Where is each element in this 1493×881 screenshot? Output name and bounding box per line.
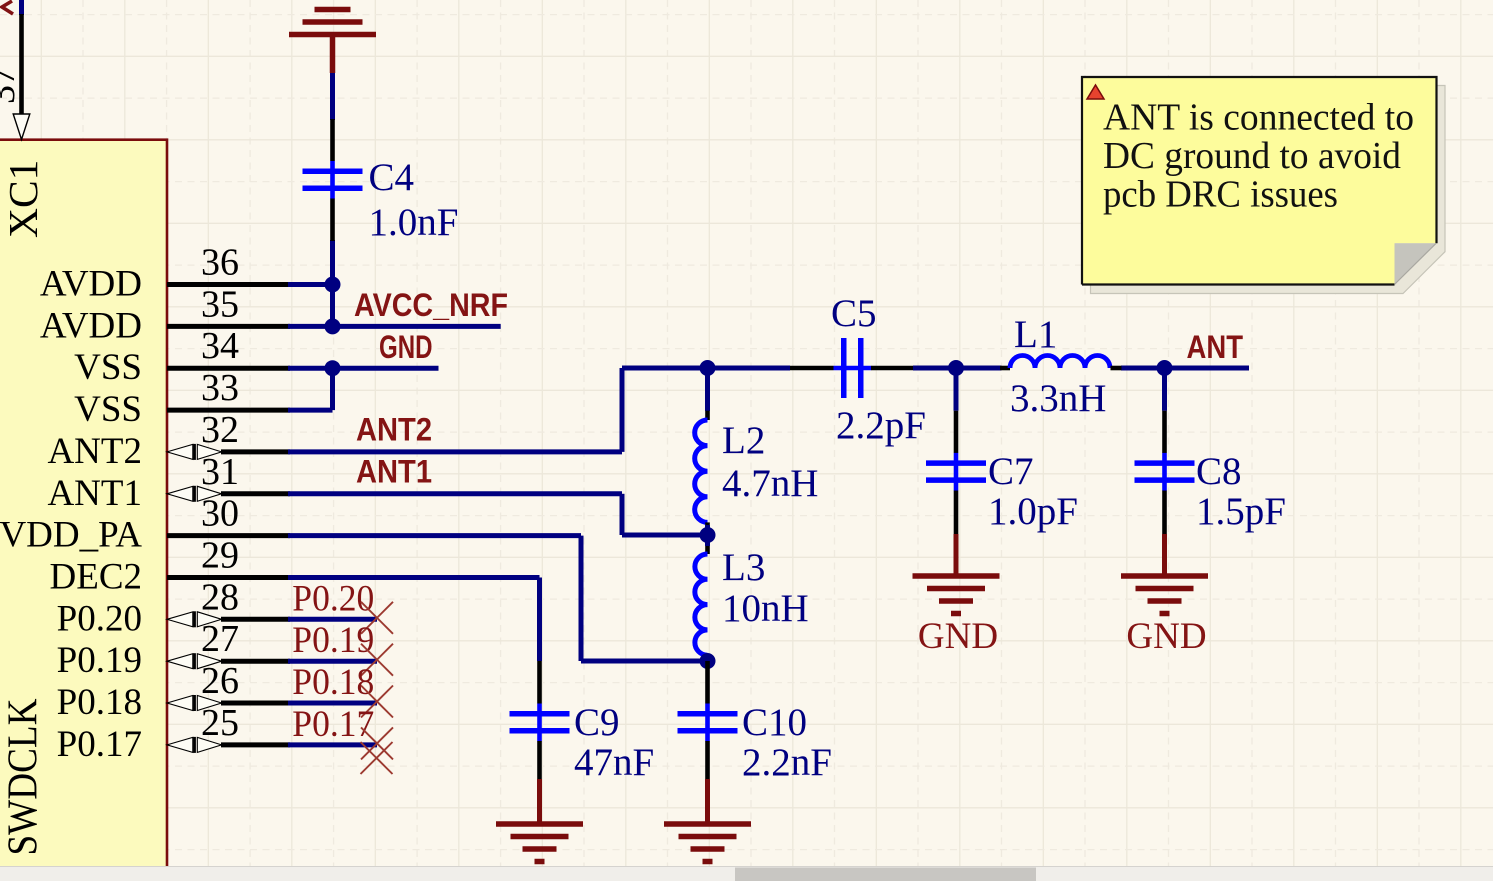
pin 28 P0.20: [57, 576, 290, 639]
designator XC1: [0, 160, 46, 238]
svg-text:2.2pF: 2.2pF: [836, 404, 926, 447]
scrollbar thumb: [735, 868, 1036, 881]
svg-text:GND: GND: [918, 616, 998, 657]
capacitor C10: [678, 661, 832, 784]
wire ANT2: [288, 368, 622, 452]
svg-text:ANT1: ANT1: [47, 473, 142, 514]
junction L3 bottom: [700, 653, 716, 669]
svg-text:C4: C4: [369, 156, 415, 199]
no-ERC cross P0.18: [361, 686, 393, 718]
inductor L1: [1000, 313, 1122, 420]
junction pin36: [325, 277, 341, 293]
pin 37 with input arrow: [0, 14, 30, 140]
partial net-label glyph top-left: [2, 1, 13, 14]
wire P0.20: [288, 617, 377, 622]
svg-text:29: 29: [201, 535, 239, 577]
wire AVCC_NRF pin35: [288, 324, 501, 329]
svg-text:27: 27: [201, 618, 239, 660]
no-ERC cross P0.17: [361, 727, 393, 759]
svg-text:AVDD: AVDD: [40, 264, 142, 305]
pin 32 ANT2: [47, 409, 290, 472]
svg-text:2.2nF: 2.2nF: [742, 741, 832, 784]
wire GND pin34: [288, 366, 439, 371]
net label P0.19: [292, 620, 374, 661]
no-ERC cross P0.19: [361, 644, 393, 676]
svg-text:25: 25: [201, 702, 239, 744]
svg-text:C7: C7: [988, 450, 1034, 493]
net label GND: [379, 329, 433, 365]
ground (flipped) above C4: [289, 0, 376, 73]
svg-text:P0.20: P0.20: [292, 578, 374, 619]
pin 29 DEC2: [50, 535, 291, 598]
net label P0.17: [292, 704, 374, 745]
svg-text:37: 37: [0, 66, 23, 104]
svg-text:ANT: ANT: [1187, 329, 1244, 365]
svg-text:L2: L2: [722, 419, 765, 462]
capacitor C4: [303, 73, 459, 244]
svg-text:30: 30: [201, 493, 239, 535]
net label ANT2: [356, 412, 432, 448]
pin 34 VSS: [74, 325, 290, 388]
svg-text:P0.17: P0.17: [292, 704, 374, 745]
junction C7: [948, 360, 964, 376]
svg-text:P0.18: P0.18: [57, 682, 142, 723]
svg-text:P0.17: P0.17: [57, 724, 142, 765]
pin 33 VSS: [74, 367, 290, 430]
capacitor C8: [1135, 368, 1286, 534]
svg-text:DEC2: DEC2: [50, 557, 143, 598]
svg-text:P0.19: P0.19: [292, 620, 374, 661]
scrollbar track: [0, 867, 1493, 881]
svg-text:VSS: VSS: [74, 347, 142, 388]
pin 27 P0.19: [57, 618, 290, 681]
svg-text:35: 35: [201, 283, 239, 325]
wire P0.18: [288, 701, 377, 706]
capacitor C7: [926, 368, 1078, 534]
svg-text:P0.18: P0.18: [292, 662, 374, 703]
ground below C9: [496, 779, 583, 862]
svg-text:XC1: XC1: [0, 160, 46, 238]
ground below C7: [913, 534, 1000, 614]
svg-text:1.0pF: 1.0pF: [988, 490, 1078, 533]
pin 26 P0.18: [57, 660, 290, 723]
inductor L3: [695, 535, 809, 661]
IC XC1 body: [0, 140, 167, 881]
pin 35 AVDD: [40, 283, 290, 346]
svg-text:ANT2: ANT2: [356, 412, 432, 448]
ground below C8: [1121, 534, 1208, 614]
net label P0.18: [292, 662, 374, 703]
wire DEC2 to C9: [288, 578, 540, 662]
wire VSS pin33: [288, 368, 333, 410]
wire ANT1: [288, 494, 708, 535]
svg-text:C8: C8: [1196, 450, 1242, 493]
wire VDD_PA: [288, 536, 708, 661]
svg-text:L3: L3: [722, 546, 765, 589]
svg-text:DC ground to avoid: DC ground to avoid: [1103, 135, 1401, 177]
svg-text:P0.20: P0.20: [57, 598, 142, 639]
junction pin35: [325, 318, 341, 334]
svg-text:C5: C5: [831, 292, 877, 335]
svg-text:31: 31: [201, 451, 239, 493]
pin 30 VDD_PA: [0, 493, 290, 556]
svg-text:pcb DRC issues: pcb DRC issues: [1103, 173, 1338, 215]
svg-text:GND: GND: [379, 329, 433, 365]
GND label below C8: [1126, 616, 1206, 657]
junction L2 top: [700, 360, 716, 376]
svg-text:34: 34: [201, 325, 239, 367]
svg-text:SWDCLK: SWDCLK: [1, 699, 47, 856]
svg-text:AVCC_NRF: AVCC_NRF: [354, 287, 508, 323]
svg-text:GND: GND: [1126, 616, 1206, 657]
note shadow: [1091, 86, 1446, 294]
pin 31 ANT1: [47, 451, 290, 514]
svg-text:36: 36: [201, 242, 239, 284]
power bus vertical (AVCC net): [330, 240, 335, 326]
junction L2/L3 mid: [700, 527, 716, 543]
svg-text:33: 33: [201, 367, 239, 409]
inductor L2: [695, 368, 819, 535]
pin 25 P0.17: [57, 702, 290, 765]
wire AVDD pin36 to bus: [288, 282, 333, 287]
junction C8/ANT: [1157, 360, 1173, 376]
svg-text:32: 32: [201, 409, 239, 451]
RF rail wire right: [1121, 366, 1249, 371]
svg-text:3.3nH: 3.3nH: [1010, 377, 1106, 420]
svg-text:ANT1: ANT1: [356, 453, 432, 489]
net label ANT: [1187, 329, 1244, 365]
svg-text:C10: C10: [742, 701, 807, 744]
wire P0.19: [288, 659, 377, 664]
GND label below C7: [918, 616, 998, 657]
ground below C10: [664, 779, 751, 862]
wire to pin 37: [19, 0, 24, 15]
svg-text:ANT is connected to: ANT is connected to: [1103, 96, 1414, 138]
svg-text:C9: C9: [574, 701, 620, 744]
wire P0.17: [288, 742, 377, 747]
svg-text:47nF: 47nF: [574, 741, 654, 784]
svg-text:VDD_PA: VDD_PA: [0, 515, 142, 556]
junction pin34: [325, 360, 341, 376]
svg-text:L1: L1: [1014, 313, 1057, 356]
no-ERC cross P0.20: [361, 602, 393, 634]
pin name SWDCLK (bottom edge pin): [1, 699, 47, 856]
capacitor C5: [790, 292, 926, 447]
no-ERC cross below P0.17: [361, 742, 393, 774]
note text: [1103, 96, 1414, 215]
svg-text:4.7nH: 4.7nH: [722, 462, 818, 505]
capacitor C9: [510, 661, 655, 784]
svg-text:10nH: 10nH: [722, 587, 809, 630]
pin 36 AVDD: [40, 242, 290, 305]
net label P0.20: [292, 578, 374, 619]
svg-text:AVDD: AVDD: [40, 305, 142, 346]
svg-text:ANT2: ANT2: [47, 431, 142, 472]
svg-text:26: 26: [201, 660, 239, 702]
net label AVCC_NRF: [354, 287, 508, 323]
svg-text:1.5pF: 1.5pF: [1196, 490, 1286, 533]
svg-text:VSS: VSS: [74, 389, 142, 430]
note box: [1082, 77, 1437, 285]
svg-text:28: 28: [201, 576, 239, 618]
net label ANT1: [356, 453, 432, 489]
svg-text:P0.19: P0.19: [57, 640, 142, 681]
note marker triangle: [1087, 85, 1104, 99]
RF rail wire mid: [913, 366, 1002, 371]
RF rail wire left: [622, 366, 790, 371]
svg-text:1.0nF: 1.0nF: [369, 201, 459, 244]
